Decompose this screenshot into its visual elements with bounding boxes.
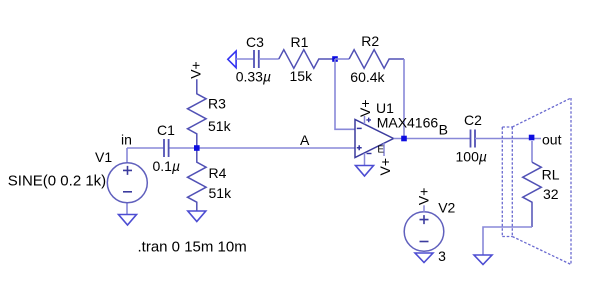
- svg-text:15k: 15k: [290, 68, 314, 84]
- op-amp V+ pin plus label: [366, 118, 371, 123]
- ground under RL wire: [474, 255, 492, 265]
- wire RL bottom to ground: [483, 227, 532, 255]
- resistor R4: [188, 148, 207, 211]
- wire feedback down: [335, 59, 355, 129]
- svg-text:A: A: [300, 132, 310, 148]
- svg-text:in: in: [121, 131, 132, 147]
- ground under V1: [119, 215, 137, 226]
- svg-text:V+: V+: [357, 99, 373, 117]
- op-amp V- pin minus label: [367, 153, 372, 155]
- wire junction to R2: [335, 58, 349, 60]
- svg-text:V2: V2: [438, 200, 455, 216]
- svg-text:0.1µ: 0.1µ: [153, 158, 181, 174]
- svg-text:51k: 51k: [208, 118, 232, 134]
- svg-text:B: B: [439, 122, 448, 138]
- wire in to C1: [127, 147, 355, 149]
- op-amp E pin stub: [383, 143, 385, 156]
- junction R1 R2 square: [332, 56, 338, 62]
- wire C2 to out: [475, 138, 541, 140]
- svg-text:MAX4166: MAX4166: [377, 114, 439, 130]
- svg-text:32: 32: [543, 186, 559, 202]
- op-amp pin plus: [357, 145, 362, 150]
- svg-text:RL: RL: [542, 167, 560, 183]
- speaker dashed outline: [502, 98, 571, 265]
- svg-text:60.4k: 60.4k: [350, 69, 385, 85]
- voltage source V2: [404, 212, 444, 252]
- port arrow left of C3: [228, 51, 236, 68]
- svg-text:V+: V+: [188, 61, 204, 79]
- junction output square: [401, 136, 407, 142]
- svg-text:51k: 51k: [209, 185, 233, 201]
- junction node A square: [194, 145, 200, 151]
- ground under R4: [188, 211, 206, 222]
- svg-text:R2: R2: [361, 33, 379, 49]
- svg-text:out: out: [542, 132, 562, 148]
- svg-text:100µ: 100µ: [456, 148, 487, 164]
- capacitor C1: [164, 139, 169, 157]
- wire V2 top stub: [423, 205, 425, 212]
- op-amp U1: [355, 120, 394, 158]
- ground under op-amp: [356, 166, 374, 177]
- svg-text:R4: R4: [209, 165, 227, 181]
- wire V1 top stub: [126, 148, 128, 163]
- svg-text:R1: R1: [291, 34, 309, 50]
- wire out down to RL: [531, 141, 533, 162]
- resistor R1: [279, 50, 335, 69]
- resistor RL: [523, 162, 542, 227]
- op-amp V- pin stub: [364, 153, 366, 166]
- voltage source V1: [107, 163, 147, 203]
- wire C3 to R1: [259, 58, 279, 60]
- resistor R2: [349, 50, 404, 69]
- resistor R3: [188, 79, 207, 148]
- svg-text:E: E: [377, 145, 384, 156]
- op-amp V+ pin stub: [364, 116, 366, 124]
- svg-text:C1: C1: [157, 122, 175, 138]
- ground under V2: [415, 253, 433, 263]
- wire opamp out to C2: [394, 138, 471, 140]
- junction out square: [529, 135, 535, 141]
- svg-text:V+: V+: [416, 188, 432, 206]
- wire V1 bottom stub: [126, 203, 128, 215]
- wire arrow to C3: [236, 58, 254, 60]
- op-amp pin minus: [357, 127, 362, 129]
- capacitor C2: [471, 130, 476, 148]
- svg-text:C3: C3: [246, 34, 264, 50]
- svg-text:.tran 0 15m 10m: .tran 0 15m 10m: [138, 238, 247, 255]
- svg-text:SINE(0 0.2 1k): SINE(0 0.2 1k): [8, 173, 106, 190]
- svg-text:V+: V+: [377, 158, 393, 176]
- svg-text:C2: C2: [464, 112, 482, 128]
- wire R2 down to output: [403, 59, 405, 139]
- svg-text:0.33µ: 0.33µ: [236, 68, 271, 84]
- svg-text:R3: R3: [208, 96, 226, 112]
- svg-text:V1: V1: [95, 149, 112, 165]
- capacitor C3: [254, 50, 259, 68]
- svg-text:3: 3: [438, 248, 446, 264]
